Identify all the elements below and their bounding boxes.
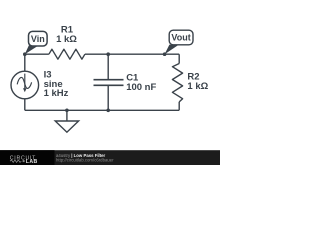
svg-text:Vout: Vout [171, 32, 190, 42]
wire middle branch (C1 leads) [107, 54, 109, 110]
node Vin anchor dot [23, 52, 27, 56]
node Vout anchor dot [163, 52, 167, 56]
resistor R2 [172, 64, 182, 102]
footer title text [56, 153, 114, 163]
svg-text:100 nF: 100 nF [126, 82, 156, 93]
C1 value label [126, 73, 156, 93]
I3 value label [44, 69, 69, 99]
node C1 bottom junction [106, 109, 110, 113]
current source I3 [11, 71, 39, 99]
R1 value label [56, 25, 77, 45]
I3 arrow head [23, 88, 27, 92]
node Vout flag [165, 30, 193, 54]
node Vin flag [25, 31, 47, 54]
wire top rail [25, 53, 179, 55]
svg-text:1 kHz: 1 kHz [44, 88, 69, 99]
node C1 top junction [106, 52, 110, 56]
capacitor C1 [94, 80, 124, 86]
wire left branch [24, 54, 26, 110]
node ground junction [65, 109, 69, 113]
svg-text:Vin: Vin [31, 34, 45, 44]
svg-text:http://circuitlab.com/c6rdbaue: http://circuitlab.com/c6rdbauer [56, 158, 114, 163]
R2 value label [187, 72, 208, 92]
wire right branch (R2 leads) [178, 54, 180, 110]
footer CircuitLab logo [10, 155, 38, 165]
svg-text:1 kΩ: 1 kΩ [187, 81, 208, 92]
footer bar [0, 150, 220, 165]
svg-text:LAB: LAB [26, 159, 38, 165]
wire bottom rail [25, 109, 179, 111]
ground [55, 110, 78, 132]
resistor R1 [49, 49, 85, 59]
svg-text:1 kΩ: 1 kΩ [56, 34, 77, 45]
